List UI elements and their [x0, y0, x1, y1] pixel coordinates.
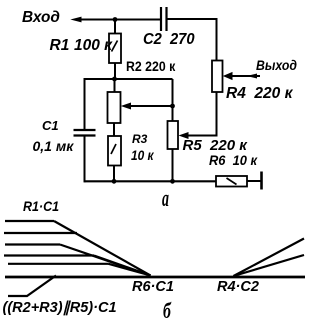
resistor R6: [216, 176, 247, 187]
label Вход: [22, 10, 60, 26]
resistor R3: [108, 136, 121, 166]
label R3: [132, 133, 147, 145]
wiper arrow R2: [128, 105, 173, 107]
wiper arrow R5: [185, 135, 217, 137]
curve L5 plateau: [8, 263, 109, 265]
label R1-C1: [23, 199, 59, 213]
label R2 220 к: [126, 59, 175, 73]
wire R5 bottom lead: [172, 149, 174, 182]
wire R1 bottom lead: [114, 63, 116, 79]
capacitor C2: [160, 7, 162, 31]
wire R2 to R3: [113, 123, 115, 137]
curve L2 plateau: [4, 232, 77, 234]
wire R1 top lead: [114, 20, 116, 35]
resistor R5 (pot): [168, 121, 179, 149]
node R5 top junction: [170, 104, 175, 109]
label R6-C1: [132, 280, 174, 295]
wiper arrow R4 / output: [229, 75, 260, 77]
label R4-C2: [217, 280, 259, 295]
output direction arrowhead: [247, 74, 258, 79]
label 0,1 мк: [33, 139, 74, 153]
label б: [163, 300, 171, 318]
resistor R4 (pot): [212, 61, 223, 93]
label Выход: [256, 59, 297, 73]
curve right slope 2 from R4-C2: [234, 255, 305, 276]
bottom bus wire: [85, 180, 217, 182]
curve L4 slope: [94, 256, 151, 276]
label R1 100к: [50, 38, 70, 54]
wire C1 branch down: [84, 78, 86, 130]
resistor R1: [109, 34, 121, 64]
curve L1 plateau R1-C1: [5, 220, 54, 222]
curve L1 slope: [54, 221, 151, 276]
label a: [162, 187, 169, 211]
input arrowhead: [70, 17, 81, 23]
curve L3 plateau: [5, 243, 60, 245]
label R6 10 к: [209, 153, 257, 167]
node bus-R3 junction: [112, 179, 117, 184]
wire node A horizontal: [85, 78, 173, 80]
wire R5 branch down: [172, 79, 174, 122]
curve L5 slope: [109, 264, 151, 276]
label 10 к: [131, 148, 154, 162]
graph axis: [5, 276, 305, 279]
capacitor C1: [74, 129, 96, 131]
label C1: [42, 119, 59, 132]
wire C1 to bottom bus: [84, 136, 86, 183]
curve L4 plateau: [4, 254, 94, 256]
terminal bar: [260, 172, 263, 190]
label R5 220 к: [183, 138, 247, 153]
wire C2 to right corner: [168, 19, 217, 61]
curve right slope 1 from R4-C2: [234, 239, 305, 277]
wire R4 bottom to R5 wiper: [186, 92, 217, 136]
label C2 270: [143, 32, 195, 48]
resistor R2 (pot): [108, 92, 121, 123]
label R4 220к: [226, 86, 292, 102]
node bus-R5 junction: [170, 179, 175, 184]
node top junction: [113, 17, 118, 22]
label ((R2+R3)||R5)-C1: [3, 301, 117, 316]
wire R2 top lead: [114, 79, 116, 93]
wire R3 bottom lead: [113, 166, 115, 183]
curve low plateau ((R2+R3)||R5)C1: [8, 276, 56, 297]
node A junction: [112, 77, 117, 82]
wire input top: [74, 19, 161, 21]
curve L3 slope: [60, 245, 151, 276]
wire R6 to terminal: [247, 180, 261, 182]
